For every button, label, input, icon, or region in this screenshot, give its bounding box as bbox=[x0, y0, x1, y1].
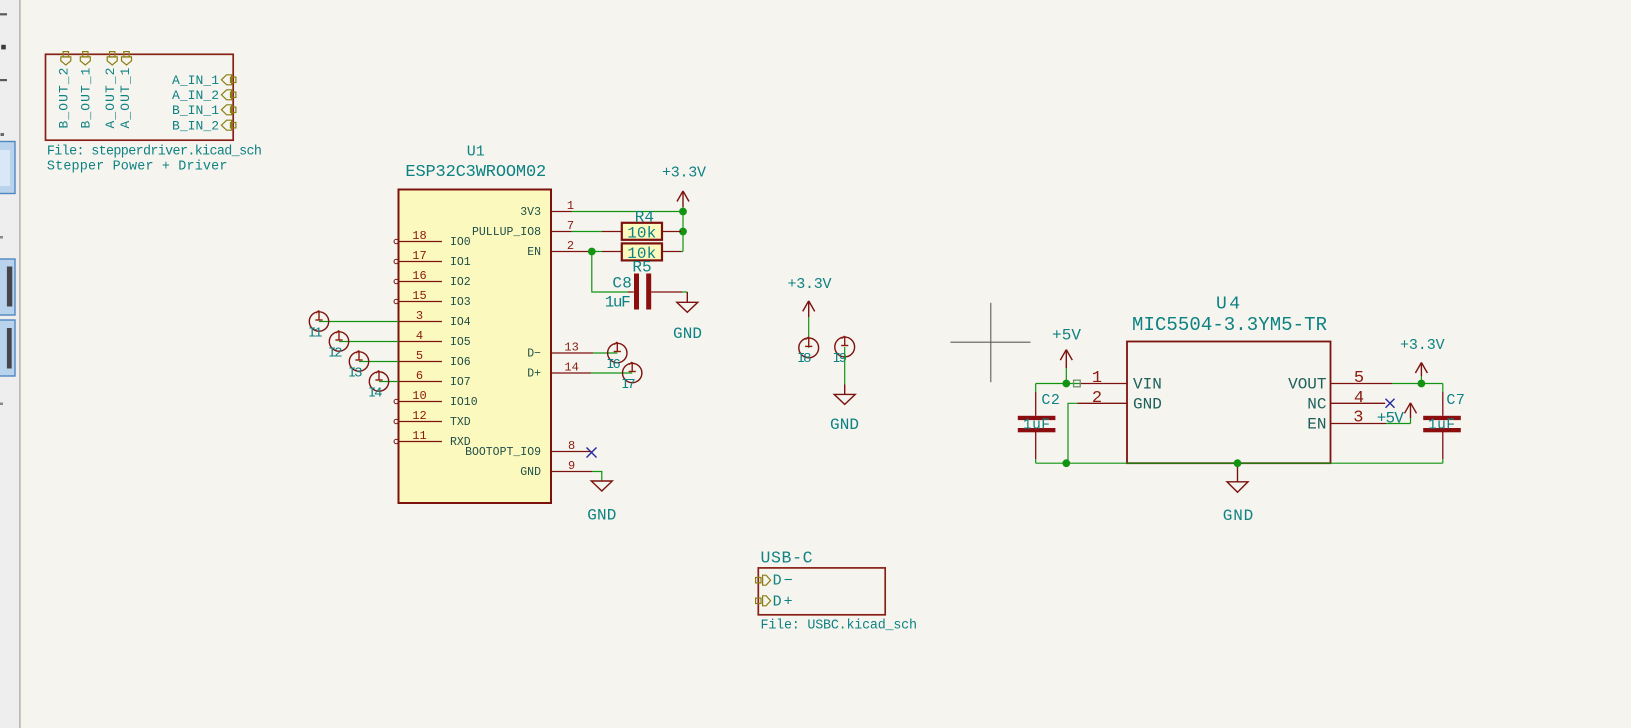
U4 body bbox=[1127, 342, 1331, 464]
svg-text:EN: EN bbox=[527, 246, 541, 259]
sheet pin B_OUT_2 (top, unconnected square) bbox=[61, 52, 236, 131]
dangling-end square marker at VIN bbox=[1074, 380, 1081, 387]
svg-text:3: 3 bbox=[1353, 408, 1363, 427]
svg-text:IO0: IO0 bbox=[450, 236, 471, 249]
wire +3.3V rail vertical bbox=[682, 212, 684, 252]
svg-text:B_IN_1: B_IN_1 bbox=[172, 103, 219, 118]
sheet pin D- bbox=[756, 575, 771, 606]
svg-text:IO5: IO5 bbox=[450, 336, 471, 349]
wire D+ to I7 bbox=[591, 372, 632, 374]
svg-text:+5V: +5V bbox=[1377, 409, 1404, 427]
U1 right pin stubs bbox=[551, 212, 593, 472]
ground (middle) bbox=[834, 385, 855, 405]
toolbar separator dot bbox=[0, 236, 3, 239]
toolbar icon fragment dot 3 bbox=[1, 133, 5, 136]
svg-text:B_IN_2: B_IN_2 bbox=[172, 119, 219, 134]
toolbar icon fragment dash 1 bbox=[0, 13, 7, 15]
U4 pin names bbox=[1133, 376, 1327, 434]
svg-text:BOOTOPT_IO9: BOOTOPT_IO9 bbox=[465, 446, 541, 459]
svg-text:C7: C7 bbox=[1446, 392, 1465, 409]
svg-text:IO4: IO4 bbox=[450, 316, 471, 329]
U1 right pin names bbox=[465, 206, 541, 479]
left toolbar background bbox=[0, 0, 20, 728]
testpoint I9 bbox=[835, 337, 855, 357]
svg-text:GND: GND bbox=[1133, 395, 1162, 413]
wire GND pin2 of U4 bbox=[1068, 403, 1078, 463]
wire D- to I6 bbox=[593, 352, 617, 354]
testpoint I3 bbox=[359, 361, 399, 363]
sheet pin A_OUT_2 bbox=[110, 52, 115, 57]
junction rail left bbox=[1062, 459, 1070, 467]
svg-text:GND: GND bbox=[673, 325, 702, 343]
wire 3V3 to +3.3V bbox=[572, 211, 684, 213]
no-connect X on U4 NC bbox=[1386, 399, 1395, 408]
svg-text:3: 3 bbox=[416, 309, 423, 323]
svg-text:10k: 10k bbox=[627, 224, 656, 242]
svg-text:I2: I2 bbox=[328, 346, 342, 362]
svg-text:U1: U1 bbox=[467, 143, 485, 160]
sheet pin A_IN_2 bbox=[231, 92, 236, 97]
wire VOUT to +3.3V bbox=[1392, 383, 1443, 385]
svg-text:GND: GND bbox=[1223, 507, 1254, 525]
capacitor C2 bbox=[1035, 384, 1037, 393]
svg-text:A_OUT_1: A_OUT_1 bbox=[118, 67, 133, 128]
svg-text:+3.3V: +3.3V bbox=[1400, 337, 1445, 354]
svg-text:GND: GND bbox=[520, 466, 541, 479]
ground (right of C8) bbox=[677, 292, 698, 312]
svg-text:EN: EN bbox=[1307, 416, 1326, 434]
wire I9 to GND bbox=[844, 347, 846, 385]
svg-text:IO10: IO10 bbox=[450, 396, 478, 409]
svg-text:I8: I8 bbox=[797, 351, 811, 367]
wire +5V to VIN bbox=[1036, 383, 1080, 385]
svg-text:ESP32C3WROOM02: ESP32C3WROOM02 bbox=[405, 163, 546, 182]
svg-text:1uF: 1uF bbox=[1023, 418, 1050, 434]
resistor R4 bbox=[602, 231, 622, 233]
svg-text:A_OUT_2: A_OUT_2 bbox=[103, 68, 118, 129]
ground (U1 pin 9) bbox=[591, 481, 612, 491]
toolbar pressed button 1 bbox=[0, 142, 15, 194]
svg-text:+5V: +5V bbox=[1052, 326, 1081, 344]
svg-text:5: 5 bbox=[1354, 369, 1364, 388]
svg-text:IO2: IO2 bbox=[450, 276, 471, 289]
wire +3.3V to I8 bbox=[808, 317, 810, 348]
wire ground rail bbox=[1036, 462, 1443, 464]
U1 unconnected pin-end circles bbox=[394, 239, 398, 443]
svg-text:I4: I4 bbox=[368, 386, 382, 402]
capacitor C8 bbox=[628, 291, 634, 293]
svg-text:1: 1 bbox=[1092, 369, 1102, 388]
svg-text:10: 10 bbox=[412, 389, 426, 403]
wire PULLUP_IO8 to R4 bbox=[572, 231, 603, 233]
svg-text:+3.3V: +3.3V bbox=[662, 165, 706, 182]
svg-text:File: stepperdriver.kicad_sch: File: stepperdriver.kicad_sch bbox=[47, 144, 262, 159]
svg-text:B_OUT_2: B_OUT_2 bbox=[56, 68, 71, 129]
svg-text:VOUT: VOUT bbox=[1288, 376, 1326, 394]
U1 body bbox=[399, 190, 552, 504]
svg-text:+3.3V: +3.3V bbox=[788, 276, 832, 293]
sheet pin B_IN_2 bbox=[231, 123, 236, 128]
svg-text:Stepper Power + Driver: Stepper Power + Driver bbox=[47, 159, 228, 174]
crosshair marker bbox=[950, 341, 1030, 343]
svg-text:D−: D− bbox=[527, 348, 541, 361]
svg-text:B_OUT_1: B_OUT_1 bbox=[78, 67, 93, 128]
svg-text:A_IN_2: A_IN_2 bbox=[172, 88, 219, 103]
svg-text:6: 6 bbox=[416, 369, 423, 383]
svg-text:D−: D− bbox=[773, 573, 793, 590]
svg-text:USB-C: USB-C bbox=[761, 548, 813, 567]
svg-text:12: 12 bbox=[412, 409, 426, 423]
svg-text:IO1: IO1 bbox=[450, 256, 471, 269]
toolbar icon fragment dash 2 bbox=[0, 79, 7, 81]
testpoint I8 bbox=[799, 338, 819, 358]
toolbar separator dot low bbox=[0, 403, 3, 406]
U4 pin stubs bbox=[1078, 384, 1393, 424]
toolbar pressed button 2 bbox=[0, 259, 15, 315]
svg-text:D+: D+ bbox=[773, 593, 793, 610]
svg-text:GND: GND bbox=[830, 416, 859, 434]
svg-text:17: 17 bbox=[412, 249, 426, 263]
no-connect X on pin 8 bbox=[587, 448, 597, 458]
wire EN node bbox=[588, 251, 602, 253]
svg-text:I7: I7 bbox=[621, 377, 635, 393]
U4 pin numbers bbox=[1092, 369, 1364, 427]
svg-text:IO3: IO3 bbox=[450, 296, 471, 309]
sheet pin A_IN_1 (right) bbox=[231, 77, 236, 82]
junction +5V node bbox=[1062, 380, 1070, 388]
junction +3.3V node bbox=[1418, 380, 1426, 388]
svg-text:3V3: 3V3 bbox=[520, 206, 541, 219]
svg-text:1uF: 1uF bbox=[1428, 418, 1455, 434]
testpoint I4 bbox=[379, 381, 399, 383]
toolbar pressed button 3 bbox=[0, 320, 15, 376]
testpoint I1 bbox=[319, 321, 399, 323]
testpoint I7 bbox=[623, 363, 642, 382]
svg-text:File: USBC.kicad_sch: File: USBC.kicad_sch bbox=[761, 618, 918, 633]
U1 left pin names bbox=[450, 236, 478, 449]
sheet pin A_OUT_1 bbox=[124, 52, 129, 57]
svg-text:NC: NC bbox=[1307, 395, 1326, 413]
svg-text:TXD: TXD bbox=[450, 416, 471, 429]
U1 left pin numbers bbox=[412, 229, 426, 443]
svg-text:PULLUP_IO8: PULLUP_IO8 bbox=[472, 226, 541, 239]
svg-text:I1: I1 bbox=[308, 326, 322, 342]
svg-text:11: 11 bbox=[412, 429, 426, 443]
svg-text:2: 2 bbox=[1092, 389, 1102, 408]
svg-text:GND: GND bbox=[587, 507, 616, 525]
wire EN to +5V bbox=[1386, 423, 1411, 425]
svg-text:16: 16 bbox=[412, 269, 426, 283]
svg-text:5: 5 bbox=[416, 349, 423, 363]
junction rail center bbox=[1234, 459, 1242, 467]
hierarchical sheet: Stepper Power + Driver bbox=[46, 54, 234, 140]
sheet pin D+ bbox=[756, 598, 761, 603]
svg-text:A_IN_1: A_IN_1 bbox=[172, 73, 219, 88]
ground (U4) bbox=[1227, 463, 1248, 492]
testpoint I6 bbox=[608, 343, 627, 362]
sheet pin B_IN_1 bbox=[231, 107, 236, 112]
junction +3.3V at 3V3 bbox=[679, 208, 687, 216]
svg-text:C2: C2 bbox=[1041, 392, 1060, 409]
U1 right pin numbers bbox=[564, 199, 578, 473]
resistor R5 bbox=[602, 251, 622, 253]
svg-text:18: 18 bbox=[412, 229, 426, 243]
svg-text:D+: D+ bbox=[527, 368, 541, 381]
svg-text:4: 4 bbox=[416, 329, 423, 343]
svg-text:15: 15 bbox=[412, 289, 426, 303]
junction +3.3V at R4 bbox=[679, 228, 687, 236]
svg-text:I6: I6 bbox=[606, 357, 620, 373]
svg-text:I3: I3 bbox=[348, 366, 362, 382]
toolbar icon fragment square bbox=[1, 45, 6, 50]
wire EN down to C8 bbox=[592, 252, 628, 293]
svg-text:VIN: VIN bbox=[1133, 376, 1162, 394]
U1 left pin lines bbox=[399, 242, 442, 442]
testpoint I2 bbox=[339, 341, 399, 343]
svg-text:4: 4 bbox=[1354, 389, 1364, 408]
wire C8 to GND bbox=[682, 291, 687, 293]
toolbar divider bbox=[19, 0, 21, 728]
wire GND pin 9 bbox=[592, 472, 602, 482]
capacitor C7 bbox=[1442, 384, 1444, 393]
svg-text:IO6: IO6 bbox=[450, 356, 471, 369]
hierarchical sheet USB-C bbox=[758, 568, 885, 615]
junction EN node bbox=[588, 248, 596, 256]
sheet pin B_OUT_1 bbox=[83, 52, 88, 57]
svg-text:MIC5504-3.3YM5-TR: MIC5504-3.3YM5-TR bbox=[1132, 314, 1327, 336]
svg-text:1uF: 1uF bbox=[605, 294, 631, 312]
svg-text:IO7: IO7 bbox=[450, 376, 471, 389]
svg-text:C8: C8 bbox=[612, 274, 632, 292]
